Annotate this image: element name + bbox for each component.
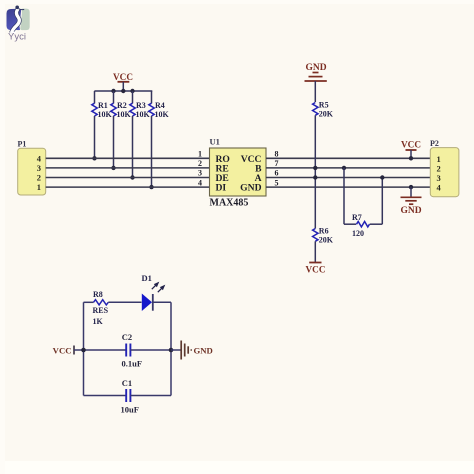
connector P2: [430, 139, 459, 197]
svg-text:R3: R3: [136, 101, 146, 110]
wire U1 pin8 to P2 pin1 (VCC net): [266, 157, 430, 159]
svg-text:1: 1: [37, 182, 41, 192]
svg-text:0.1uF: 0.1uF: [122, 359, 143, 369]
svg-text:120: 120: [352, 229, 364, 238]
svg-text:VCC: VCC: [53, 345, 72, 355]
svg-text:R5: R5: [319, 101, 329, 110]
logo: [7, 6, 30, 43]
GND port right: [169, 341, 213, 360]
svg-text:1K: 1K: [93, 317, 104, 326]
node rail-R3: [130, 89, 134, 93]
svg-text:MAX485: MAX485: [210, 198, 249, 209]
svg-text:C1: C1: [122, 378, 132, 388]
svg-text:3: 3: [437, 173, 441, 183]
svg-text:3: 3: [198, 169, 202, 178]
svg-text:VCC: VCC: [306, 265, 326, 275]
svg-text:VCC: VCC: [113, 72, 133, 82]
VCC power symbol bottom right: [306, 263, 326, 275]
svg-text:7: 7: [275, 159, 279, 168]
resistor R2: [111, 91, 132, 170]
svg-text:R1: R1: [98, 101, 108, 110]
svg-text:1: 1: [198, 150, 202, 159]
svg-text:8: 8: [275, 150, 279, 159]
svg-text:1: 1: [437, 154, 441, 164]
svg-text:Yyci: Yyci: [8, 32, 26, 43]
svg-text:2: 2: [198, 159, 202, 168]
capacitor C1: [84, 378, 172, 415]
svg-text:DI: DI: [216, 183, 227, 194]
resistor R5: [313, 101, 334, 119]
resistor R4: [149, 91, 170, 189]
svg-text:6: 6: [275, 169, 279, 178]
svg-text:10uF: 10uF: [121, 405, 139, 415]
svg-text:GND: GND: [400, 206, 421, 216]
wire U1 pin5 to P2 pin4 (GND net): [266, 186, 430, 188]
svg-text:3: 3: [37, 163, 41, 173]
svg-text:R4: R4: [155, 101, 165, 110]
wire right vertical: [170, 302, 172, 395]
svg-text:20K: 20K: [319, 236, 334, 245]
wire U1 pin7 to P2 pin2 (B net): [266, 167, 430, 169]
wire R5 down through wires to R6: [314, 115, 316, 228]
svg-text:P1: P1: [18, 140, 27, 149]
svg-text:U1: U1: [210, 137, 220, 147]
VCC power symbol top: [113, 72, 133, 91]
wire P1 pin4 to U1 pin1: [46, 157, 210, 159]
svg-text:20K: 20K: [319, 110, 334, 119]
svg-text:R7: R7: [352, 213, 362, 222]
VCC port left: [53, 345, 86, 355]
svg-text:GND: GND: [194, 345, 213, 355]
svg-text:RES: RES: [93, 306, 109, 315]
wire left vertical: [83, 302, 85, 395]
node rail-R2: [111, 89, 115, 93]
node B net junction: [313, 166, 317, 170]
node A net junction: [313, 175, 317, 179]
svg-text:4: 4: [198, 178, 202, 187]
wire GND to R5: [314, 81, 316, 102]
svg-text:D1: D1: [142, 273, 152, 283]
svg-text:R2: R2: [117, 101, 127, 110]
IC U1 MAX485: [198, 137, 279, 209]
LED D1: [142, 273, 172, 311]
svg-text:VCC: VCC: [401, 140, 421, 150]
wire P1 pin3 to U1 pin2: [46, 167, 210, 169]
ground top (inverted earth): [305, 63, 327, 81]
capacitor C2: [84, 332, 172, 369]
resistor R8: [84, 290, 142, 326]
svg-text:2: 2: [37, 173, 41, 183]
svg-text:R8: R8: [93, 290, 103, 299]
svg-text:C2: C2: [122, 332, 132, 342]
svg-text:10K: 10K: [155, 110, 170, 119]
svg-text:2: 2: [437, 163, 441, 173]
resistor R6: [313, 227, 334, 245]
connector P1: [18, 140, 46, 196]
wire R6 to VCC: [314, 241, 316, 262]
svg-text:R6: R6: [319, 227, 329, 236]
resistor R3: [130, 91, 151, 180]
wire U1 pin6 to P2 pin3 (A net): [266, 177, 430, 179]
svg-text:GND: GND: [240, 183, 261, 194]
svg-text:P2: P2: [430, 139, 439, 148]
ground right: [400, 185, 421, 216]
wire P1 pin1 to U1 pin4: [46, 186, 210, 188]
wire VCC rail: [94, 90, 152, 92]
resistor R1: [92, 91, 113, 161]
svg-text:5: 5: [275, 178, 279, 187]
svg-text:GND: GND: [305, 63, 326, 73]
resistor R7 with stubs: [342, 166, 385, 238]
wire P1 pin2 to U1 pin3: [46, 177, 210, 179]
node rail-VCC: [121, 89, 125, 93]
VCC power symbol right: [401, 140, 421, 161]
